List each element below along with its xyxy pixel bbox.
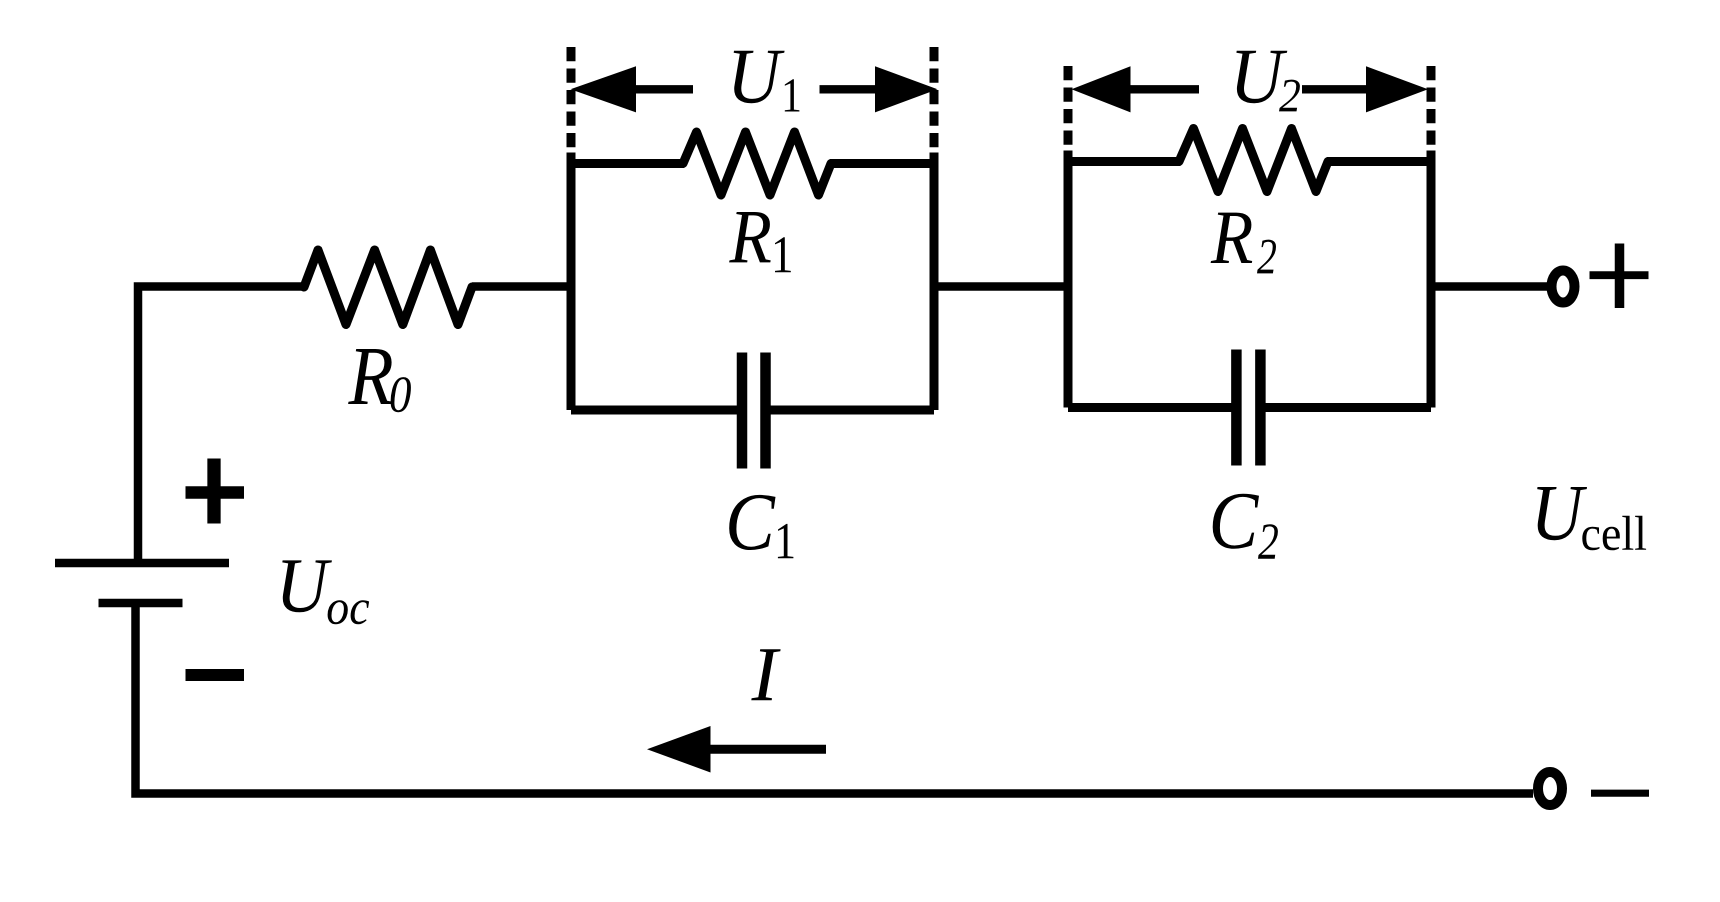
dashed line left of U1 span bbox=[567, 47, 576, 148]
label R1 bbox=[729, 212, 791, 272]
label R2 bbox=[1211, 213, 1276, 274]
resistor R0 bbox=[304, 250, 472, 325]
wire R0 to RC box 1 bbox=[472, 282, 575, 291]
dashed line right of U1 span bbox=[930, 47, 939, 148]
label C2 bbox=[1213, 494, 1278, 559]
dashed line left of U2 span bbox=[1064, 66, 1073, 148]
wire: top-right segment of box 2 bbox=[1327, 157, 1431, 166]
wire: bottom-left segment of box 1 bbox=[571, 406, 742, 415]
label Uoc bbox=[282, 560, 369, 624]
capacitor C1 bbox=[742, 353, 766, 469]
node D: right edge of RC box 2 bbox=[1427, 151, 1436, 408]
U2 left arrow bbox=[1072, 66, 1200, 112]
resistor R2 bbox=[1179, 129, 1328, 192]
minus sign at battery negative plate bbox=[186, 669, 245, 681]
U1 left arrow bbox=[571, 66, 694, 112]
dashed line right of U2 span bbox=[1427, 66, 1436, 148]
node C: left edge of RC box 2 bbox=[1064, 151, 1073, 408]
plus sign at battery positive plate bbox=[186, 459, 245, 524]
wire RC box 2 to positive output terminal bbox=[1431, 282, 1548, 291]
wire from battery negative plate down and along the bottom to negative terminal bbox=[136, 603, 1534, 794]
U1 right arrow bbox=[820, 66, 938, 112]
wire: bottom-right segment of box 2 bbox=[1260, 403, 1431, 412]
plus sign at positive output terminal bbox=[1590, 244, 1649, 309]
label R0 bbox=[348, 349, 411, 412]
battery Uoc positive plate (long) bbox=[55, 559, 229, 568]
wire: top-left segment of box 2 bbox=[1068, 157, 1180, 166]
capacitor C2 bbox=[1236, 350, 1260, 466]
wire: top-left segment of box 1 bbox=[571, 159, 684, 168]
current arrow I bbox=[647, 726, 826, 773]
wire: top-right segment of box 1 bbox=[830, 159, 934, 168]
wire from battery positive terminal up and right toward R0 bbox=[138, 287, 305, 564]
wire: bottom-right segment of box 1 bbox=[766, 406, 935, 415]
label U1 bbox=[734, 51, 800, 112]
label U2 bbox=[1236, 51, 1300, 112]
wire: bottom-left segment of box 2 bbox=[1068, 403, 1236, 412]
minus sign at negative output terminal bbox=[1591, 790, 1649, 797]
wire between RC box 1 and RC box 2 bbox=[934, 282, 1068, 291]
node A: left edge of RC box 1 bbox=[567, 153, 576, 411]
battery Uoc negative plate (short) bbox=[99, 599, 183, 608]
positive output terminal circle bbox=[1552, 271, 1575, 303]
label C1 bbox=[729, 495, 793, 558]
U2 right arrow bbox=[1302, 66, 1428, 112]
resistor R1 bbox=[683, 132, 831, 195]
negative output terminal circle bbox=[1538, 772, 1562, 805]
label Ucell bbox=[1537, 487, 1646, 550]
node B: right edge of RC box 1 bbox=[930, 153, 939, 411]
label I bbox=[751, 649, 780, 700]
